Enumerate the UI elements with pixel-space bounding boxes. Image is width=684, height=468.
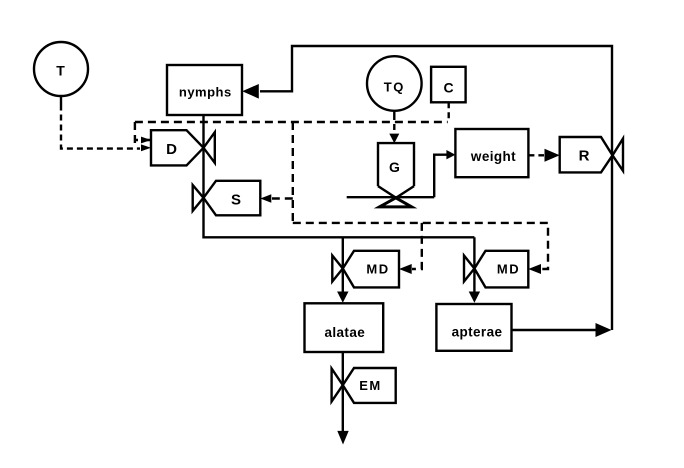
dashed link C down to info line bbox=[448, 102, 450, 122]
dashed branch to valve S bbox=[272, 197, 293, 199]
valve MD left (bowtie + label box) bbox=[332, 251, 399, 288]
svg-text:MD: MD bbox=[497, 262, 520, 277]
arrowhead into G top bbox=[389, 134, 399, 144]
svg-text:S: S bbox=[231, 192, 241, 209]
svg-text:R: R bbox=[579, 148, 590, 165]
valve EM (bowtie + label box) bbox=[332, 368, 396, 403]
arrowhead into nymphs bbox=[242, 84, 259, 99]
valve MD right (bowtie + label box) bbox=[464, 251, 528, 288]
svg-text:apterae: apterae bbox=[452, 325, 503, 340]
arrowhead into D (lower, from T) bbox=[141, 144, 151, 151]
valve R (label box + bowtie on right border line) bbox=[560, 137, 623, 172]
arrowhead into alatae bbox=[337, 292, 348, 303]
valve D (bowtie + label box) bbox=[151, 130, 215, 165]
svg-text:weight: weight bbox=[470, 149, 516, 164]
arrowhead into MD right bbox=[528, 264, 541, 274]
wire: G valve up into weight bbox=[434, 155, 447, 198]
wire: main flow nymphs down through D and S then right bbox=[204, 115, 475, 237]
box weight bbox=[455, 129, 528, 177]
dashed link weight to R bbox=[528, 154, 544, 156]
arrowhead into D (upper, from dashed net) bbox=[141, 137, 151, 144]
arrowhead into S (from dashed net) bbox=[260, 194, 271, 202]
svg-text:C: C bbox=[444, 80, 454, 96]
dashed link T to valve D bbox=[61, 105, 140, 149]
level box apterae bbox=[436, 304, 511, 351]
source circle TQ bbox=[367, 56, 422, 114]
arrowhead into apterae bbox=[469, 292, 480, 303]
svg-text:TQ: TQ bbox=[384, 80, 405, 95]
wire: top feedback loop (right side x=612, top y=46, down-left into nymphs) bbox=[260, 46, 612, 330]
level box alatae bbox=[305, 303, 384, 352]
source circle T bbox=[34, 42, 88, 105]
wire: flow alatae down through EM bbox=[342, 352, 344, 432]
dashed info line lower (y=222.9) with corner down to MD right bbox=[293, 223, 548, 269]
wire: flow MD right down into apterae bbox=[473, 237, 475, 294]
svg-text:T: T bbox=[56, 63, 65, 79]
wire: flow MD left down into alatae bbox=[342, 237, 344, 294]
svg-text:D: D bbox=[166, 141, 177, 158]
dashed vertical net x=292.8 bbox=[292, 122, 294, 223]
dashed branch to MD left bbox=[412, 223, 422, 269]
svg-text:nymphs: nymphs bbox=[179, 85, 232, 100]
svg-text:EM: EM bbox=[359, 378, 382, 393]
dashed info line upper (y=122) with L-drop into D bbox=[135, 122, 448, 143]
svg-text:G: G bbox=[389, 159, 400, 175]
arrowhead into weight bbox=[446, 150, 455, 159]
arrowhead into MD left bbox=[399, 264, 412, 274]
arrowhead at feedback line bbox=[596, 323, 612, 337]
level box nymphs bbox=[167, 65, 242, 115]
wire: flow apterae right into feedback line bbox=[512, 329, 597, 331]
arrowhead bottom sink bbox=[337, 431, 348, 445]
dashed link TQ down to G bbox=[393, 114, 395, 134]
constant box C bbox=[431, 67, 466, 103]
arrowhead into R bbox=[545, 149, 560, 162]
svg-text:MD: MD bbox=[366, 262, 389, 277]
valve S (bowtie + label box) bbox=[193, 181, 261, 216]
svg-text:alatae: alatae bbox=[324, 325, 365, 340]
hopper G with valve bbox=[347, 143, 435, 207]
